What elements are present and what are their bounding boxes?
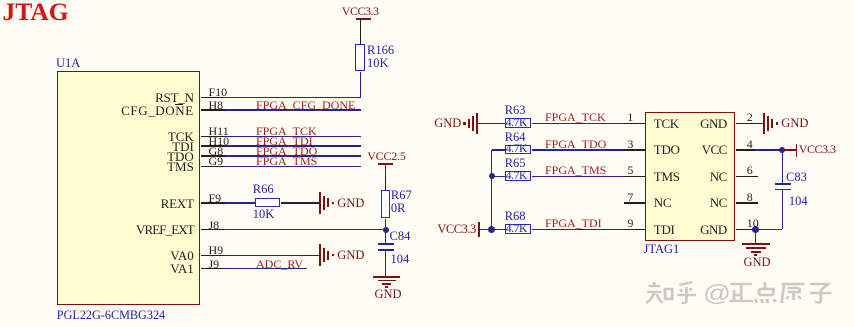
svg-text:@: @ (703, 281, 731, 305)
